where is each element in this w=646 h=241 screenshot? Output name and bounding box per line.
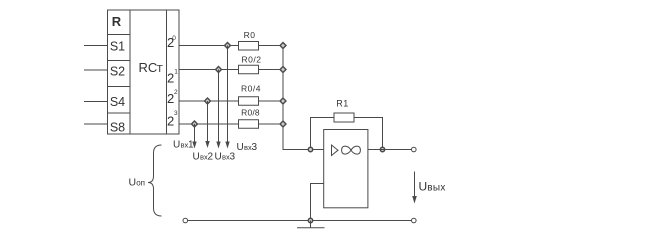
op-amp infinity symbol	[342, 146, 361, 154]
svg-text:Т: Т	[157, 63, 164, 75]
svg-text:R0/4: R0/4	[241, 84, 261, 94]
arrow Uvx (2^1)	[216, 142, 220, 149]
resistor R0/4	[239, 97, 259, 106]
bus wire to op-amp input	[283, 46, 324, 150]
net label Uvx1	[173, 140, 194, 151]
svg-text:U: U	[173, 140, 180, 151]
output pin label 2^0	[167, 35, 176, 50]
wire drop from 2^1 tap	[218, 70, 220, 143]
label R1	[336, 99, 349, 109]
wire R0 to bus	[259, 45, 284, 47]
svg-text:1: 1	[174, 69, 178, 76]
pin label S8	[110, 121, 125, 135]
op-amp triangle symbol	[332, 145, 339, 156]
arrow Uvx (2^0)	[225, 142, 229, 149]
label R0/4	[241, 84, 261, 94]
net label Uvyh	[419, 180, 446, 194]
wire input S8	[84, 123, 108, 125]
svg-text:1: 1	[188, 140, 194, 151]
net label Uvx2	[193, 152, 214, 163]
wire drop from 2^3 tap	[194, 124, 196, 143]
counter RCT block outline	[108, 10, 180, 134]
resistor R0/2	[239, 65, 259, 74]
brace Uop	[148, 145, 162, 216]
label R0/2	[242, 55, 262, 65]
junction feedback input	[308, 147, 312, 151]
svg-text:3: 3	[174, 110, 178, 117]
wire R0/8 to bus	[259, 123, 284, 125]
svg-text:3: 3	[252, 142, 258, 153]
node bus row 2^0	[280, 43, 286, 49]
node bus row 2^1	[280, 67, 286, 73]
wire drop from 2^0 tap	[227, 46, 229, 143]
wire op-amp second input	[311, 184, 324, 221]
svg-text:R0/8: R0/8	[241, 108, 260, 118]
node bus row 2^3	[280, 121, 286, 127]
wire input S2	[84, 69, 108, 71]
output pin label 2^1	[167, 69, 178, 86]
wire R0/4 to bus	[259, 100, 284, 102]
block function label RCT	[139, 60, 164, 75]
resistor R0	[239, 42, 259, 51]
wire row 2^3 to R0/8	[179, 123, 239, 125]
wire R0/2 to bus	[259, 69, 284, 71]
arrow Uvyh	[412, 172, 417, 204]
svg-text:S8: S8	[110, 121, 125, 135]
pin label S4	[110, 95, 125, 109]
wire input S4	[84, 101, 108, 103]
svg-text:R1: R1	[336, 99, 349, 109]
node tap 2^3	[192, 121, 198, 127]
ground	[297, 221, 325, 228]
svg-text:U: U	[419, 180, 428, 194]
net label Uvx3	[215, 152, 236, 163]
wire feedback right vertical	[354, 118, 383, 150]
svg-text:0: 0	[172, 35, 176, 42]
terminal output circle	[412, 147, 417, 152]
pin label R	[112, 14, 122, 29]
label R0	[244, 30, 256, 40]
svg-text:2: 2	[174, 89, 178, 96]
wire op-amp output	[368, 149, 412, 151]
svg-text:3: 3	[230, 152, 236, 163]
output pin label 2^3	[167, 110, 178, 129]
label R0/8	[241, 108, 260, 118]
node tap 2^0	[225, 43, 231, 49]
svg-text:U: U	[237, 142, 244, 153]
svg-text:U: U	[129, 177, 137, 189]
arrow Uvx (2^2)	[205, 141, 209, 148]
terminal bottom-left circle	[183, 218, 188, 223]
junction ground	[308, 218, 312, 222]
wire row 2^2 to R0/4	[179, 100, 239, 102]
wire bottom rail	[188, 220, 412, 222]
node bus row 2^2	[280, 98, 286, 104]
resistor R1	[334, 113, 354, 122]
svg-text:2: 2	[208, 152, 214, 163]
net label Uop	[129, 177, 145, 189]
svg-text:S1: S1	[110, 40, 125, 54]
op-amp box	[324, 130, 368, 208]
svg-text:S4: S4	[110, 95, 125, 109]
node tap 2^1	[216, 67, 222, 73]
svg-text:R: R	[112, 14, 122, 29]
terminal bottom-right circle	[412, 218, 417, 223]
junction feedback output	[380, 147, 384, 151]
net label Uvx3 right	[237, 142, 258, 153]
wire row 2^1 to R0/2	[179, 69, 239, 71]
output pin label 2^2	[167, 89, 178, 106]
svg-text:U: U	[193, 152, 200, 163]
svg-text:S2: S2	[110, 65, 125, 79]
svg-text:R0/2: R0/2	[242, 55, 262, 65]
node tap 2^2	[205, 98, 211, 104]
resistor R0/8	[239, 120, 259, 129]
svg-text:U: U	[215, 152, 222, 163]
svg-text:RC: RC	[139, 60, 158, 75]
arrow Uvx (2^3)	[192, 142, 196, 149]
wire row 2^0 to R0	[179, 45, 239, 47]
wire drop from 2^2 tap	[207, 101, 209, 142]
svg-text:вых: вых	[427, 183, 445, 194]
wire input S1	[84, 45, 108, 47]
svg-text:R0: R0	[244, 30, 256, 40]
pin label S2	[110, 65, 125, 79]
wire feedback left vertical	[311, 118, 335, 150]
svg-text:2: 2	[167, 71, 174, 86]
pin label S1	[110, 40, 125, 54]
svg-text:оп: оп	[136, 179, 145, 188]
